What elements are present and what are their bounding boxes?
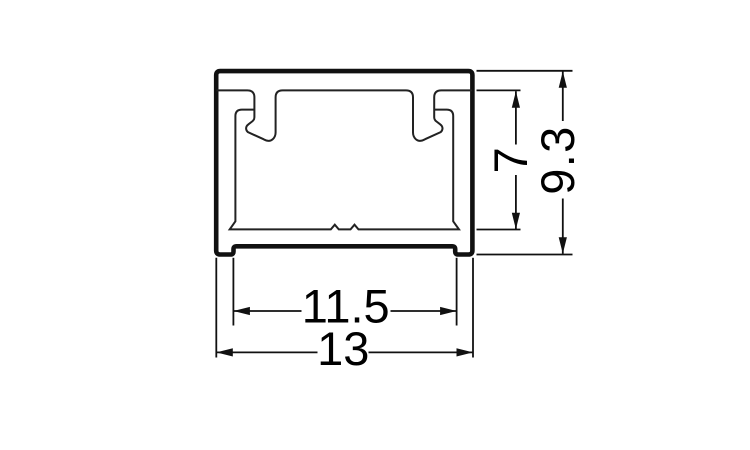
- dimension extension line: inner top (7): [477, 89, 521, 91]
- arrowhead 11.5 left: [233, 307, 250, 315]
- base inner cavity (thin): wall tops, walls, floor with centre bumps: [230, 110, 459, 230]
- dimension line 13 (horizontal): [216, 351, 317, 353]
- cover inner surface with snap flanges (thin): [217, 90, 473, 140]
- dimension line 11.5 (horizontal): [233, 310, 301, 312]
- dimension extension line: foot inner left (11.5): [232, 258, 234, 326]
- arrowhead 13 left: [216, 348, 233, 356]
- arrowhead 11.5 right: [440, 307, 457, 315]
- svg-text:13: 13: [317, 322, 369, 375]
- arrowhead 13 right: [457, 348, 474, 356]
- dimension extension line: outer top (9.3): [477, 70, 573, 72]
- arrowhead 7 bottom: [512, 213, 520, 230]
- svg-text:9.3: 9.3: [531, 125, 584, 194]
- svg-text:7: 7: [484, 147, 537, 173]
- duct outer profile (thick outline): [216, 71, 472, 254]
- dimension extension line: inner floor (7): [477, 229, 521, 231]
- dimension line 7 (vertical): [515, 91, 517, 144]
- arrowhead 9.3 top: [559, 71, 567, 88]
- dimension line 9.3 (vertical): [562, 71, 564, 121]
- dimension extension line: outer left (13): [215, 258, 217, 358]
- dimension extension line: foot inner right (11.5): [456, 258, 458, 326]
- arrowhead 7 top: [512, 91, 520, 108]
- dimension extension line: outer right (13): [472, 258, 474, 358]
- dimension extension line: outer bottom (9.3): [477, 254, 573, 256]
- arrowhead 9.3 bottom: [559, 237, 567, 254]
